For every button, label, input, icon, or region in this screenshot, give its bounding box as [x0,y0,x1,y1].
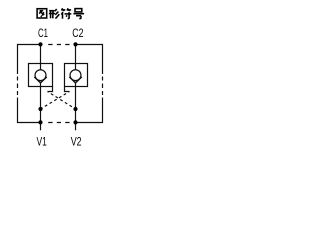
pilot line left valve to V2 wire (dashed diagonal) [48,92,76,110]
junction dot pilot left [38,107,42,111]
junction dot C1 top [38,42,42,46]
title 图形符号 (drawn strokes) [37,8,84,18]
enclosure top edge left solid segment + left edge upper solid [18,45,41,75]
check ball left circle [35,70,46,81]
hanzi 形 [49,9,60,19]
hanzi 图 [37,9,47,18]
enclosure top edge dashes [48,44,69,46]
wire C1/V1 line x=40.5 [40,44,42,70]
junction dot V2 bottom [73,120,77,124]
svg-text:V1: V1 [37,135,48,149]
valve body left square [29,64,53,87]
enclosure right edge dashes [102,77,104,96]
enclosure left edge dashes [17,77,19,96]
valve body right square [65,64,88,87]
enclosure bottom edge dashes [48,122,69,124]
junction dot V1 bottom [38,120,42,124]
svg-text:C2: C2 [72,26,83,40]
hanzi 符 [61,8,71,18]
enclosure bottom edge left solid segment + left edge lower solid [18,98,41,123]
check ball right circle [70,70,81,81]
junction dot pilot right [73,107,77,111]
svg-text:C1: C1 [38,26,48,40]
enclosure bottom edge right solid segment + right edge lower solid [76,98,103,123]
pilot line right valve to V1 wire (dashed diagonal) [41,92,70,110]
check seat right [69,77,82,83]
hanzi 号 [73,9,84,19]
junction dot C2 top [73,42,77,46]
enclosure top edge right solid segment + right edge upper solid [76,45,103,75]
check seat left [34,77,47,83]
pilot stub right valve [65,87,70,92]
wire C2/V2 line x=75.5 [75,44,77,70]
pilot stub left valve [48,87,53,92]
svg-text:V2: V2 [71,135,82,149]
